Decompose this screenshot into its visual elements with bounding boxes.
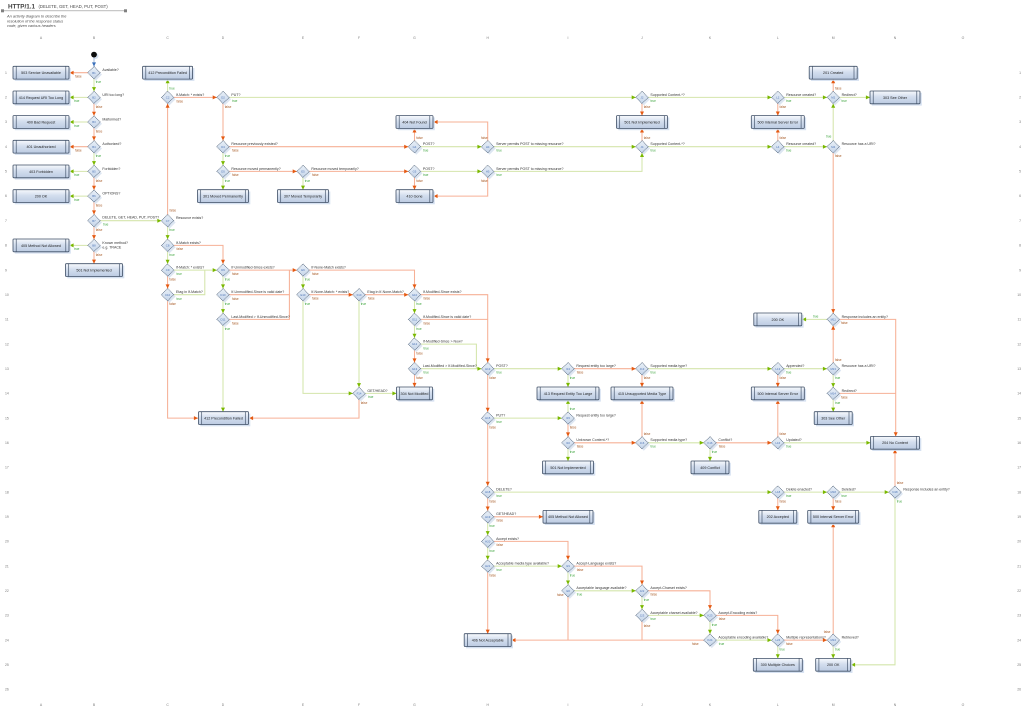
svg-text:N18: N18 [892, 490, 898, 494]
decision J13: Supported media type? [636, 363, 687, 377]
svg-text:If-Match: * exists?: If-Match: * exists? [176, 93, 204, 97]
svg-text:D4: D4 [221, 145, 225, 149]
svg-text:Last-Modified > If-Unmodified-: Last-Modified > If-Unmodified-Since? [231, 315, 289, 319]
decision M13: Resource has a URI? [827, 363, 876, 377]
edge F14 false -> 412b right [249, 400, 368, 421]
svg-text:true: true [225, 327, 231, 331]
svg-text:M: M [832, 36, 835, 40]
decision H19: GET/HEAD? [482, 511, 517, 525]
decision I13: Request entity too large? [562, 363, 616, 377]
decision K16: Conflict? [704, 437, 732, 451]
svg-text:Resource created?: Resource created? [786, 93, 816, 97]
svg-text:true: true [424, 371, 430, 375]
svg-text:Supported media type?: Supported media type? [650, 364, 687, 368]
svg-text:true: true [305, 278, 311, 282]
svg-text:Request entity too large?: Request entity too large? [576, 414, 615, 418]
decision I16: Unknown Content-*? [562, 437, 609, 451]
edge G4 false -> 404 [413, 128, 424, 140]
svg-text:4: 4 [5, 145, 7, 149]
svg-text:If-Match: * exists?: If-Match: * exists? [176, 266, 204, 270]
svg-text:false: false [424, 297, 431, 301]
svg-text:200 OK: 200 OK [35, 195, 48, 199]
decision L16: Updated? [772, 437, 802, 451]
svg-text:POST?: POST? [423, 142, 435, 146]
edge C2 true -> 412a [166, 79, 175, 91]
svg-text:false: false [424, 322, 431, 326]
edge L24 true -> 300 top [776, 646, 785, 658]
svg-text:I15: I15 [566, 416, 570, 420]
svg-text:200 OK: 200 OK [772, 318, 785, 322]
svg-text:Request entity too large?: Request entity too large? [576, 364, 615, 368]
svg-text:Supported media type?: Supported media type? [650, 438, 687, 442]
svg-text:false: false [841, 321, 848, 325]
svg-text:true: true [651, 445, 657, 449]
svg-text:true: true [712, 450, 718, 454]
svg-text:G5: G5 [413, 170, 417, 174]
edge J13 false -> 415 top [640, 375, 651, 387]
svg-text:true: true [225, 278, 231, 282]
svg-text:true: true [497, 568, 503, 572]
edge L2 false -> 500 top [776, 104, 787, 116]
svg-text:16: 16 [5, 441, 9, 445]
svg-text:H20: H20 [485, 540, 491, 544]
edge J16 true -> K16 [648, 441, 704, 449]
edge H15 false -> H18 [486, 424, 497, 486]
svg-text:D11: D11 [221, 318, 226, 322]
svg-text:If-None-Match: * exists?: If-None-Match: * exists? [311, 290, 349, 294]
svg-text:H18: H18 [485, 490, 491, 494]
svg-text:405 Method Not Allowed: 405 Method Not Allowed [548, 515, 588, 519]
svg-text:true: true [169, 228, 175, 232]
svg-text:J4: J4 [641, 145, 644, 149]
svg-text:I13: I13 [566, 367, 570, 371]
edge N18 true -> 200 M25 right [851, 498, 902, 667]
svg-text:Redirect?: Redirect? [842, 93, 857, 97]
decision F10: Etag in If-None-Match? [353, 289, 404, 303]
edge H21 false -> 406 top [486, 572, 497, 633]
box G14: 304 Not Modified [397, 387, 435, 402]
edge D5 false -> E5 [229, 169, 297, 177]
svg-text:false: false [96, 228, 103, 232]
edge C7 true -> C8 [166, 227, 175, 239]
decision K23: Accept-Encoding exists? [704, 609, 757, 623]
svg-text:21: 21 [1017, 564, 1021, 568]
edge B7 false -> B8 [92, 227, 103, 239]
decision G13: Last-Modified > If-Modified-Since? [408, 363, 477, 377]
svg-text:true: true [416, 327, 422, 331]
decision G12: If-Modified-Since > Now? [408, 338, 462, 352]
svg-text:true: true [305, 179, 311, 183]
edge B4 false -> 401 [70, 145, 88, 153]
edge F10 true -> F14 top [357, 301, 366, 387]
svg-text:15: 15 [5, 416, 9, 420]
svg-text:false: false [644, 432, 651, 436]
svg-text:Appended?: Appended? [786, 364, 804, 368]
svg-text:Resource previously existed?: Resource previously existed? [231, 142, 277, 146]
svg-text:Forbidden?: Forbidden? [102, 167, 120, 171]
svg-text:false: false [169, 302, 176, 306]
svg-text:false: false [232, 322, 239, 326]
svg-text:false: false [177, 247, 184, 251]
box H24: 406 Not Acceptable [464, 634, 513, 649]
svg-text:false: false [481, 136, 488, 140]
decision D11: Last-Modified > If-Unmodified-Since? [217, 313, 290, 327]
svg-text:Resource has a URI?: Resource has a URI? [842, 364, 876, 368]
svg-text:Acceptable charset available?: Acceptable charset available? [650, 611, 697, 615]
svg-text:L: L [777, 703, 779, 707]
svg-text:true: true [813, 314, 819, 318]
svg-text:22: 22 [1017, 589, 1021, 593]
box L25: 300 Multiple Choices [753, 658, 804, 673]
svg-text:M2: M2 [831, 96, 835, 100]
svg-text:Last-Modified > If-Modified-Si: Last-Modified > If-Modified-Since? [423, 364, 477, 368]
box K17: 409 Conflict [691, 461, 731, 476]
svg-text:M14: M14 [830, 392, 836, 396]
svg-text:Authorized?: Authorized? [102, 142, 121, 146]
svg-text:22: 22 [5, 589, 9, 593]
svg-text:PUT?: PUT? [231, 93, 240, 97]
start node [91, 52, 98, 59]
svg-text:L18: L18 [775, 490, 780, 494]
svg-text:false: false [557, 593, 564, 597]
edge H19 false -> 405b [494, 515, 543, 523]
svg-text:true: true [780, 648, 786, 652]
svg-text:414 Request URI Too Long: 414 Request URI Too Long [19, 96, 63, 100]
svg-text:H4: H4 [486, 145, 490, 149]
svg-text:11: 11 [5, 318, 9, 322]
edge J16 false -> 415 bottom [640, 400, 651, 437]
svg-text:501 Not Implemented: 501 Not Implemented [624, 120, 659, 124]
edge M18 true -> N18 [839, 490, 888, 498]
decision B3: Malformed? [88, 116, 121, 130]
edge G4 true -> H4 [421, 145, 482, 153]
svg-text:6: 6 [5, 194, 7, 198]
box A1: 503 Service Unavailable [13, 66, 71, 81]
decision B1: Available? [88, 67, 119, 81]
svg-text:B8: B8 [92, 244, 96, 248]
svg-text:true: true [74, 247, 80, 251]
box A3: 400 Bad Request [13, 116, 71, 131]
decision N18: Response includes an entity? [889, 486, 950, 500]
svg-text:false: false [96, 129, 103, 133]
edge L24 false -> M24 [784, 638, 827, 646]
svg-text:Server permits POST to missing: Server permits POST to missing resource? [496, 167, 563, 171]
svg-text:false: false [96, 253, 103, 257]
svg-text:DELETE, GET, HEAD, PUT, POST?: DELETE, GET, HEAD, PUT, POST? [102, 216, 159, 220]
svg-text:true: true [651, 617, 657, 621]
decision B7: DELETE, GET, HEAD, PUT, POST? [88, 215, 159, 229]
box A8: 405 Method Not Allowed [13, 239, 71, 254]
decision L2: Resource created? [772, 91, 817, 105]
svg-text:24: 24 [1017, 638, 1021, 642]
box G3: 404 Not Found [396, 116, 435, 131]
svg-text:If-None-Match exists?: If-None-Match exists? [311, 266, 346, 270]
svg-text:HTTP/1.1: HTTP/1.1 [8, 4, 35, 11]
svg-text:8: 8 [1019, 244, 1021, 248]
svg-text:false: false [897, 481, 904, 485]
svg-text:Accept-Encoding exists?: Accept-Encoding exists? [718, 611, 757, 615]
svg-text:GET/HEAD?: GET/HEAD? [496, 512, 516, 516]
svg-text:413 Request Entity Too Large: 413 Request Entity Too Large [544, 392, 593, 396]
decision J16: Supported media type? [636, 437, 687, 451]
svg-text:Accept-Language exists?: Accept-Language exists? [576, 562, 616, 566]
edge I13 false -> J13 [574, 367, 636, 375]
edge K16 false -> L16 [716, 441, 771, 449]
edge J4 false -> 501 bottom [640, 128, 651, 140]
edge G12 true -> joinH13 [421, 344, 477, 369]
svg-text:Known method?: Known method? [102, 241, 128, 245]
svg-text:false: false [651, 593, 658, 597]
svg-text:true: true [169, 87, 175, 91]
svg-text:GET/HEAD?: GET/HEAD? [367, 389, 387, 393]
decision C10: Etag in If-Match? [161, 289, 202, 303]
svg-text:PUT?: PUT? [496, 414, 505, 418]
svg-text:23: 23 [1017, 614, 1021, 618]
svg-text:J23: J23 [640, 614, 645, 618]
svg-text:true: true [497, 173, 503, 177]
svg-text:415 Unsupported Media Type: 415 Unsupported Media Type [618, 392, 666, 396]
edge L16 true -> 204 left [784, 441, 871, 449]
svg-text:false: false [497, 519, 504, 523]
edge F14 true -> 304 left [365, 391, 396, 399]
svg-text:false: false [312, 297, 319, 301]
svg-text:Conflict?: Conflict? [718, 438, 732, 442]
svg-text:false: false [570, 426, 577, 430]
svg-text:true: true [570, 407, 576, 411]
edge M24 false -> 500c bottom [824, 523, 835, 634]
svg-text:false: false [232, 149, 239, 153]
svg-text:17: 17 [5, 466, 9, 470]
box D6: 301 Moved Permanently [198, 190, 251, 205]
edge D11 false -> joinE9 [229, 295, 289, 326]
decision H18: DELETE? [482, 486, 512, 500]
edge J22 true -> J23 [640, 597, 649, 609]
svg-text:C2: C2 [166, 96, 170, 100]
svg-text:false: false [169, 278, 176, 282]
box B9: 501 Not Implemented [66, 264, 125, 279]
edge I13 true -> 413 top [566, 375, 575, 387]
edge M14 false -> joinN [839, 393, 895, 399]
decision D2: PUT? [217, 91, 241, 105]
decision L24: Multiple representations? [772, 634, 826, 648]
svg-text:Response includes an entity?: Response includes an entity? [903, 488, 949, 492]
svg-text:true: true [96, 154, 102, 158]
svg-text:true: true [225, 179, 231, 183]
edge I21 true -> I22 [566, 572, 575, 584]
edge C8 false -> D9 top [174, 245, 225, 264]
svg-text:true: true [786, 149, 792, 153]
decision F14: GET/HEAD? [353, 387, 388, 401]
edge G11 true -> G12 [413, 326, 422, 338]
svg-text:25: 25 [5, 663, 9, 667]
edge I21 false -> J22 top [574, 566, 644, 585]
svg-text:403 Forbidden: 403 Forbidden [29, 170, 53, 174]
decision H13: POST? [482, 363, 508, 377]
decision E5: Resource moved temporarily? [297, 165, 359, 179]
svg-text:(DELETE, GET, HEAD, PUT, POST): (DELETE, GET, HEAD, PUT, POST) [39, 4, 109, 9]
box I17: 501 Not Implemented [543, 461, 596, 476]
decision G11: If-Modified-Since is valid date? [408, 313, 471, 327]
svg-text:true: true [577, 593, 583, 597]
edge H18 true -> L18 [494, 490, 772, 498]
svg-text:If-Modified-Since is valid dat: If-Modified-Since is valid date? [423, 315, 471, 319]
svg-text:true: true [489, 549, 495, 553]
svg-text:O: O [962, 703, 965, 707]
svg-text:4: 4 [1019, 145, 1021, 149]
decision I22: Acceptable language available? [562, 585, 627, 599]
svg-text:C9: C9 [166, 268, 170, 272]
svg-text:true: true [497, 420, 503, 424]
svg-text:409 Conflict: 409 Conflict [700, 466, 719, 470]
svg-text:O: O [962, 36, 965, 40]
box M15: 303 See Other [814, 412, 854, 427]
svg-text:false: false [644, 624, 651, 628]
edge D4 false -> G4 [229, 145, 408, 153]
svg-text:false: false [497, 543, 504, 547]
box L3: 500 Internal Server Error [751, 116, 806, 131]
svg-text:false: false [416, 376, 423, 380]
svg-text:M13: M13 [830, 367, 836, 371]
svg-text:true: true [570, 376, 576, 380]
edge F10 false -> G10 [365, 293, 408, 301]
svg-text:Resource has a URI?: Resource has a URI? [842, 142, 876, 146]
svg-text:F10: F10 [357, 293, 362, 297]
svg-text:true: true [842, 494, 848, 498]
edge I15 true -> 413 bottom [566, 400, 575, 412]
svg-text:true: true [497, 149, 503, 153]
edge M4 true -> M2 [826, 104, 835, 141]
edge G11 false -> joinH [421, 319, 488, 325]
edge L16 false -> 500b bottom [776, 400, 787, 437]
svg-text:true: true [416, 302, 422, 306]
edge J22 false -> K23 top [648, 591, 712, 609]
edge I15 false -> I16 [566, 424, 577, 436]
svg-text:B7: B7 [92, 219, 96, 223]
svg-text:true: true [786, 99, 792, 103]
edge D9 false -> E9 [229, 268, 297, 276]
svg-text:OPTIONS?: OPTIONS? [102, 192, 120, 196]
svg-text:K23: K23 [708, 614, 713, 618]
edge B7 true -> C7 [100, 219, 161, 227]
decision B8: Known method? [88, 239, 128, 253]
edge M2 false -> 201 [831, 79, 842, 91]
svg-text:401 Unauthorized: 401 Unauthorized [26, 145, 55, 149]
edge L13 true -> M13 [784, 367, 827, 375]
edge D11 true -> 412b top [221, 326, 230, 412]
box A5: 403 Forbidden [13, 165, 71, 180]
svg-text:true: true [651, 99, 657, 103]
decision H21: Acceptable media type available? [482, 560, 549, 574]
svg-text:M: M [832, 703, 835, 707]
svg-text:15: 15 [1017, 416, 1021, 420]
edge G10 false -> H13 top [421, 295, 490, 363]
edge H21 true -> I21 [494, 564, 562, 572]
svg-text:false: false [177, 99, 184, 103]
svg-text:true: true [169, 253, 175, 257]
svg-text:true: true [842, 99, 848, 103]
svg-text:2: 2 [5, 96, 7, 100]
svg-text:400 Bad Request: 400 Bad Request [27, 120, 56, 124]
decision B2: URI too long? [88, 91, 124, 105]
svg-text:C10: C10 [165, 293, 171, 297]
box D15: 412 Precondition Failed [199, 412, 251, 427]
svg-text:2: 2 [1019, 96, 1021, 100]
edge L2 true -> M2 [784, 95, 827, 103]
svg-text:412 Precondition Failed: 412 Precondition Failed [148, 71, 187, 75]
svg-text:false: false [835, 154, 842, 158]
box I14: 413 Request Entity Too Large [537, 387, 601, 402]
svg-text:Retrieved?: Retrieved? [842, 636, 859, 640]
svg-text:201 Created: 201 Created [823, 71, 843, 75]
svg-text:14: 14 [1017, 392, 1021, 396]
edge H13 true -> I13 [494, 367, 562, 375]
svg-text:POST?: POST? [423, 167, 435, 171]
svg-text:true: true [424, 346, 430, 350]
svg-text:B3: B3 [92, 120, 96, 124]
svg-text:false: false [361, 401, 368, 405]
svg-text:G13: G13 [412, 367, 418, 371]
edge E9 true -> E10 [301, 276, 310, 288]
edge M11 true -> 200OK L11 [802, 314, 827, 321]
svg-text:25: 25 [1017, 663, 1021, 667]
edge B2 false -> B3 [92, 104, 103, 116]
svg-text:Multiple representations?: Multiple representations? [786, 636, 826, 640]
svg-text:false: false [312, 173, 319, 177]
decision G5: POST? [408, 165, 434, 179]
svg-text:500 Internal Server Error: 500 Internal Server Error [758, 392, 799, 396]
svg-text:412 Precondition Failed: 412 Precondition Failed [204, 417, 243, 421]
svg-text:G: G [413, 36, 416, 40]
svg-text:18: 18 [1017, 490, 1021, 494]
box J3: 501 Not Implemented [617, 116, 670, 131]
edge G5 true -> H5 [421, 169, 482, 177]
edge H13 false -> H15 [486, 375, 497, 412]
decision E9: If-None-Match exists? [297, 264, 346, 278]
svg-text:false: false [170, 209, 177, 213]
svg-text:false: false [232, 297, 239, 301]
box G6: 410 Gone [396, 190, 435, 205]
edge I16 true -> 501c top [566, 449, 575, 461]
edge H5 false -> 410 right [434, 178, 488, 199]
svg-text:B1: B1 [92, 71, 96, 75]
svg-text:false: false [644, 136, 651, 140]
svg-text:Etag in If-Match?: Etag in If-Match? [176, 290, 203, 294]
svg-text:false: false [489, 574, 496, 578]
edge G13 false -> 304 top [413, 375, 424, 387]
decision M18: Deleted? [827, 486, 856, 500]
svg-text:H15: H15 [485, 416, 491, 420]
edge C2 false -> D2 [174, 95, 217, 103]
svg-text:false: false [96, 204, 103, 208]
svg-text:11: 11 [1017, 318, 1021, 322]
svg-text:Delete enacted?: Delete enacted? [786, 488, 812, 492]
edge G10 true -> G11 [413, 301, 422, 313]
edge start -> B1 [92, 58, 96, 67]
svg-text:404 Not Found: 404 Not Found [402, 120, 426, 124]
svg-text:Resource created?: Resource created? [786, 142, 816, 146]
svg-text:false: false [75, 149, 82, 153]
decision D4: Resource previously existed? [217, 141, 278, 155]
svg-text:M11: M11 [831, 318, 837, 322]
box M1: 201 Created [809, 66, 859, 81]
decision M2: Redirect? [827, 91, 857, 105]
decision J22: Accept-Charset exists? [636, 585, 687, 599]
svg-text:true: true [497, 371, 503, 375]
edge K24 true -> L24 [716, 638, 771, 646]
svg-text:DELETE?: DELETE? [496, 488, 512, 492]
svg-text:true: true [835, 376, 841, 380]
svg-text:true: true [423, 173, 429, 177]
